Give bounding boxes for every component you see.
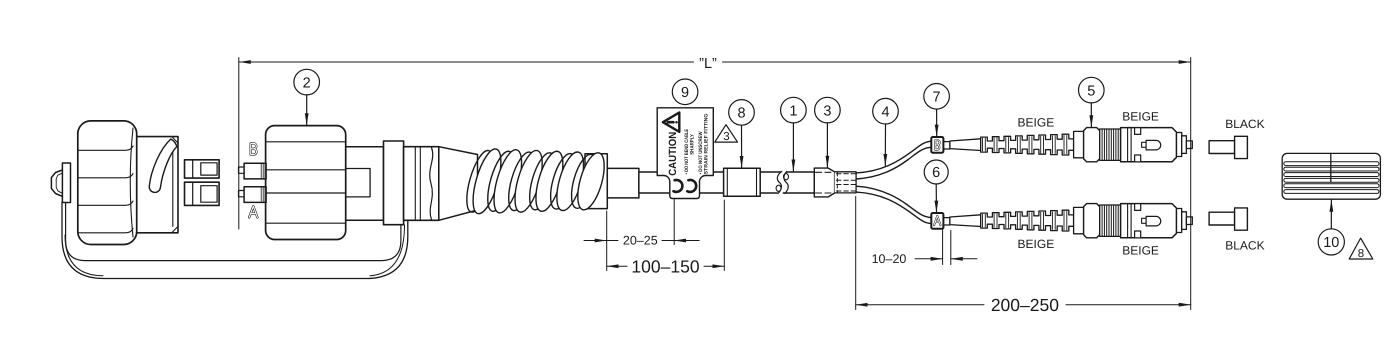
svg-text:CAUTION: CAUTION <box>667 132 679 176</box>
strap anchor plate <box>62 163 70 203</box>
ferrule A nose <box>239 191 245 197</box>
svg-text:BLACK: BLACK <box>1225 238 1264 252</box>
mounting flange <box>384 141 404 225</box>
svg-text:20–25: 20–25 <box>623 234 658 248</box>
dimension line L <box>239 61 694 63</box>
svg-text:8: 8 <box>1358 248 1364 260</box>
ferrule A flange lines <box>261 187 265 203</box>
spiral strain relief coils <box>461 146 609 216</box>
svg-text:BLACK: BLACK <box>1225 117 1264 131</box>
ferrule B flange lines <box>261 163 265 179</box>
backnut wave line <box>430 148 433 220</box>
backnut inner lines <box>415 147 420 221</box>
nut knurl line 3 <box>78 201 133 205</box>
housing bottom notch <box>1135 155 1141 162</box>
key slot <box>1142 142 1147 147</box>
dust cap upper end <box>1235 136 1248 158</box>
item 10 split line <box>1330 153 1332 181</box>
nut knurl line 4 <box>78 229 133 233</box>
svg-text:5: 5 <box>1087 83 1095 99</box>
nut knurl line 2 <box>78 174 133 178</box>
label hook clamp 1 <box>674 180 683 192</box>
lanyard strap inner edge <box>66 202 401 261</box>
svg-text:8: 8 <box>737 106 745 122</box>
furcation sleeve dashes <box>837 174 856 191</box>
cable jacket step <box>607 168 639 198</box>
spring section <box>1100 129 1121 160</box>
cap coupling nut <box>78 121 137 245</box>
corrugated boot <box>981 134 1074 155</box>
front step 2 <box>1182 136 1187 154</box>
lanyard strap outer edge <box>62 202 408 279</box>
strain relief cone <box>439 147 478 221</box>
svg-text:STRAIN RELIEF FITTING: STRAIN RELIEF FITTING <box>704 113 710 174</box>
dust cap lower body <box>1209 212 1235 225</box>
nut front face line <box>130 128 133 237</box>
strap anchor tab <box>51 170 62 196</box>
svg-text:3: 3 <box>723 131 729 143</box>
furcation hidden cable dashes <box>816 172 834 193</box>
sleeve end lines <box>727 168 756 196</box>
protective sleeve (item 8) <box>724 168 761 196</box>
svg-text:6: 6 <box>932 165 940 181</box>
svg-text:7: 7 <box>933 90 941 106</box>
boot tube <box>950 139 981 151</box>
housing bands <box>1128 128 1132 162</box>
extension line L right <box>1190 58 1192 310</box>
ferrule tip <box>1186 141 1192 149</box>
balloon 9 <box>672 79 698 105</box>
lower fiber tube <box>856 186 931 223</box>
marker tube B (item 7) <box>931 137 943 153</box>
svg-text:100–150: 100–150 <box>631 256 699 276</box>
dust cap upper body <box>1209 141 1235 154</box>
body parting lines <box>266 142 346 223</box>
extension line 20-25 left <box>606 211 608 271</box>
svg-text:10–20: 10–20 <box>872 252 907 266</box>
cap latch lever <box>149 139 177 192</box>
balloon 3 <box>815 97 841 123</box>
extension line 200-250 left <box>855 197 857 310</box>
key tab <box>346 169 370 197</box>
extension line 20-25 right <box>673 199 675 245</box>
label A <box>249 206 257 217</box>
boot rib inner lines <box>983 135 1067 153</box>
balloon 5 <box>1079 77 1105 103</box>
SC housing <box>1121 128 1177 162</box>
balloon 1 <box>781 97 807 123</box>
ferrule A body <box>244 187 266 203</box>
balloon 6 <box>924 160 948 184</box>
dimension 10-20 arrows <box>915 258 943 260</box>
dimension 100-150 <box>607 265 627 267</box>
label warning exclamation <box>668 121 674 124</box>
nut knurl line 1 <box>78 146 133 150</box>
dimension 200-250 <box>856 304 984 306</box>
balloon 2 <box>294 69 320 95</box>
boot collar <box>1074 131 1084 157</box>
SC connector assembly upper (item 5 group) <box>943 128 1192 162</box>
fiber stub <box>943 142 950 149</box>
balloon 10 <box>1318 229 1344 255</box>
svg-text:2: 2 <box>303 75 311 91</box>
flag note triangle 3 <box>715 125 738 142</box>
svg-text:3: 3 <box>823 103 831 119</box>
label warning triangle <box>663 113 679 132</box>
dust cap lower end <box>1235 208 1248 230</box>
front step 1 <box>1177 133 1182 157</box>
svg-text:BEIGE: BEIGE <box>1018 237 1055 251</box>
label B <box>251 143 257 154</box>
svg-text:SHARPLY: SHARPLY <box>689 133 695 154</box>
duplex clip upper <box>185 160 220 178</box>
svg-text:BEIGE: BEIGE <box>1018 115 1055 129</box>
upper fiber tube <box>856 141 931 179</box>
item 10 ribs <box>1284 162 1379 194</box>
ferrule B nose <box>239 167 245 173</box>
dimension 20-25 arrows <box>584 240 607 242</box>
balloon 8 <box>729 100 755 126</box>
duplex clip lower <box>185 182 220 205</box>
spiral end cylinder <box>585 154 607 209</box>
furcation body (item 3) <box>814 168 834 197</box>
SC connector assembly lower <box>943 204 1192 238</box>
dust cap body of ODC cap <box>137 137 178 233</box>
extension line 100-150 right <box>723 200 725 271</box>
svg-text:BEIGE: BEIGE <box>1122 244 1159 258</box>
svg-text:”L”: ”L” <box>699 56 717 72</box>
ODC connector body (item 2) <box>266 126 346 240</box>
label hook clamp 2 <box>687 180 696 192</box>
extension lines 10-20 <box>942 230 944 265</box>
caution label tag <box>657 108 713 199</box>
crimp cap <box>1084 128 1100 162</box>
backnut <box>404 147 439 221</box>
marker tube A (item 6) <box>931 213 943 229</box>
svg-text:BEIGE: BEIGE <box>1122 109 1159 123</box>
balloon 4 <box>873 98 899 124</box>
ferrule B body <box>244 163 266 179</box>
cable break symbol <box>778 171 787 194</box>
main cable run <box>639 172 814 193</box>
svg-text:9: 9 <box>681 85 689 101</box>
svg-text:4: 4 <box>881 104 889 120</box>
flag note triangle 8 <box>1349 238 1373 259</box>
furcation sleeve <box>835 172 857 193</box>
svg-text:10: 10 <box>1323 235 1339 251</box>
housing top notch <box>1135 128 1141 135</box>
balloon 7 <box>924 84 950 110</box>
svg-text:200–250: 200–250 <box>991 295 1059 315</box>
svg-text:1: 1 <box>789 103 797 119</box>
splice protector (item 10) <box>1282 153 1380 199</box>
collar cylinder between body and flange <box>346 147 384 221</box>
extension line L left <box>238 58 240 230</box>
